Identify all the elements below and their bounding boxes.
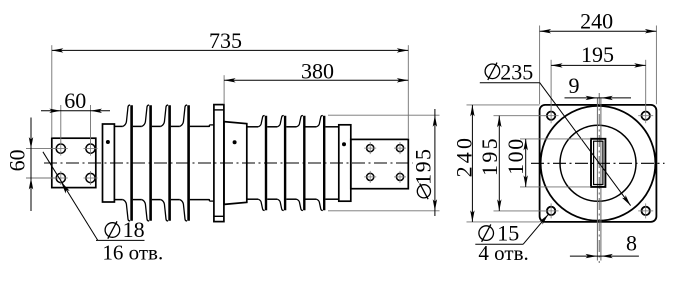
svg-text:195: 195	[477, 136, 502, 176]
svg-text:240: 240	[452, 135, 477, 178]
svg-text:240: 240	[580, 8, 613, 33]
svg-text:60: 60	[64, 88, 86, 113]
svg-text:380: 380	[301, 58, 334, 83]
svg-text:195: 195	[411, 148, 436, 185]
svg-text:235: 235	[500, 59, 533, 84]
svg-text:9: 9	[569, 73, 580, 98]
svg-text:8: 8	[626, 230, 637, 255]
svg-text:4 отв.: 4 отв.	[478, 241, 528, 265]
svg-text:16 отв.: 16 отв.	[102, 240, 163, 264]
svg-text:100: 100	[503, 137, 528, 175]
svg-text:195: 195	[581, 42, 614, 67]
svg-text:60: 60	[5, 149, 30, 171]
svg-text:735: 735	[209, 28, 242, 53]
svg-text:18: 18	[123, 217, 145, 242]
